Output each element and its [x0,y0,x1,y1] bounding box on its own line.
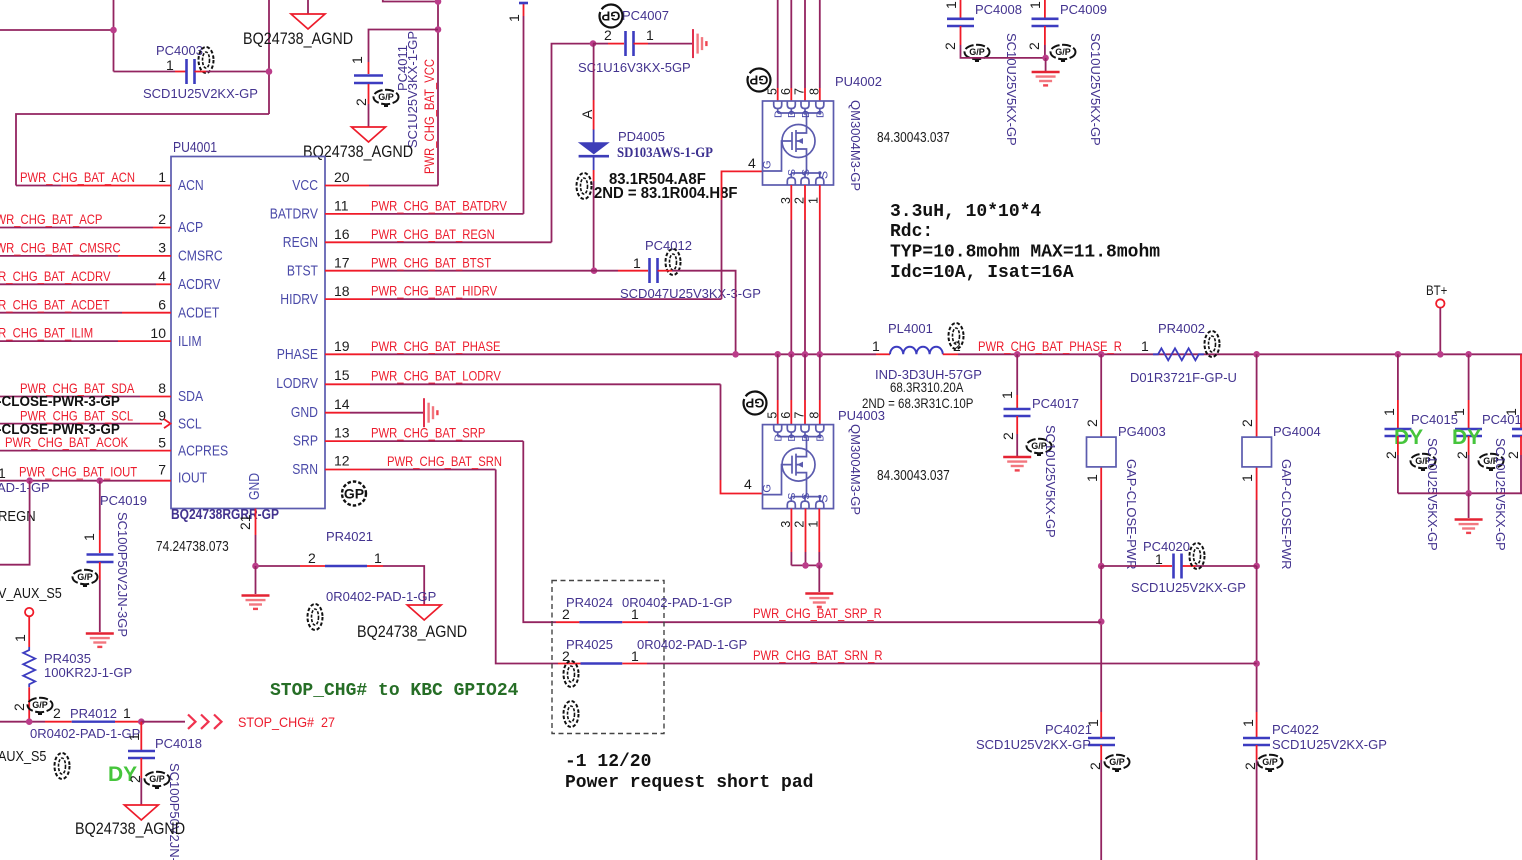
svg-text:GAP-CLOSE-PWR: GAP-CLOSE-PWR [1124,459,1139,570]
svg-text:1: 1 [81,533,97,541]
svg-text:PC4008: PC4008 [975,2,1022,17]
label PR4024 [566,595,613,610]
stamp scribble PR4021 [308,604,323,630]
wire PU4002 drain risers from top edge [778,0,820,101]
svg-text:A: A [579,109,595,119]
port chevrons STOP_CHG# [188,715,222,729]
net label ILIM [0,325,93,341]
note 84.30043.037 PU4002 [877,130,950,146]
value -CLOSE-PWR-3-GP 2 [0,422,120,438]
ground earth pin21 [242,596,270,609]
label BQ24738_AGND PC4011 [303,143,413,161]
pin 2 PC4021 (rotated) [1087,762,1103,770]
pin numbers PU4001 right [334,169,350,469]
svg-text:2: 2 [1454,451,1470,459]
svg-text:SDA: SDA [178,388,203,405]
svg-text:2: 2 [1026,42,1042,50]
svg-text:PC4007: PC4007 [622,8,669,23]
svg-text:BQ24738_AGND: BQ24738_AGND [243,30,353,48]
label DY PC4015 [1394,426,1423,449]
pin 1 PC4018 (rotated) [126,733,142,741]
wire riser x=269 [268,0,270,114]
value SC100P50V2JN-3GP PC4019 (rotated) [115,512,130,637]
svg-text:SCD1U25V2KX-GP: SCD1U25V2KX-GP [1131,580,1246,595]
svg-text:PWR_CHG_BAT_SRP_R: PWR_CHG_BAT_SRP_R [753,605,882,621]
value SCD1U25V2KX-GP PC4022 [1272,737,1387,752]
pin 1 PC4019 (rotated) [81,533,97,541]
stamp G/P PC4018 [145,772,170,788]
pin name GND bottom (rotated) [246,473,263,500]
svg-text:7: 7 [158,462,166,478]
capacitor partial right edge [1512,354,1522,493]
stamp G/P PC4019 [73,570,98,586]
node junction (819.3,565.4) [816,562,823,569]
svg-text:PWR_CHG_BAT_REGN: PWR_CHG_BAT_REGN [371,226,495,242]
pin 1 PC4016 (rotated) [1451,408,1467,416]
svg-text:1: 1 [1141,338,1149,354]
svg-text:1: 1 [1381,408,1397,416]
wire VCC riser x=438 [437,0,439,186]
wire diode branch x=593 [593,44,595,130]
svg-text:4: 4 [744,476,752,492]
svg-text:2ND = 83.1R004.H8F: 2ND = 83.1R004.H8F [594,185,738,202]
svg-text:-1 12/20: -1 12/20 [565,752,651,772]
svg-text:84.30043.037: 84.30043.037 [877,468,950,484]
wire PR4035 bottom stub [28,687,30,721]
svg-text:SCD1U25V2KX-GP: SCD1U25V2KX-GP [976,737,1091,752]
node junctions PHASE rail [732,351,823,358]
svg-text:BQ24738_AGND: BQ24738_AGND [303,143,413,161]
pin 1 PR4002 [1141,338,1149,354]
svg-text:ILIM: ILIM [178,333,202,350]
wire PHASE_R rail [958,353,1522,355]
value QM3004M3-GP (rotated) [848,100,863,191]
ground earth PU4003 source [805,594,833,607]
wire PC4018 drop [140,722,142,750]
svg-text:PWR_CHG_BAT_ACDET: PWR_CHG_BAT_ACDET [0,297,110,313]
wire PC4015 lower [1397,436,1399,493]
wire diode to BTST junction [593,170,595,271]
ground earth PC4008/9 [1032,72,1060,85]
pin 1 PC4020 [1155,551,1163,567]
wire pin19 PHASE [325,353,876,355]
svg-text:1: 1 [1240,719,1256,727]
svg-text:2: 2 [353,98,369,106]
svg-text:PR4024: PR4024 [566,595,613,610]
stamp G/P PC4015 [1411,454,1436,470]
svg-text:AD-1-GP: AD-1-GP [0,480,50,495]
pin 2 PC4009 (rotated) [1026,42,1042,50]
svg-text:PR4021: PR4021 [326,529,373,544]
svg-text:5: 5 [158,435,166,451]
value SC10U25V5KX-GP PC4008 (rotated) [1004,33,1019,146]
svg-text:SCL: SCL [178,416,202,433]
node junction (1468.6,354.3) [1465,351,1472,358]
svg-text:BATDRV: BATDRV [270,206,318,223]
wire PU4002 source drops [791,185,820,354]
wire pin4 ACDRV [0,283,171,285]
svg-text:ACDRV: ACDRV [178,276,220,293]
dashed option box [552,581,664,734]
label BQ24738_AGND PR4021 [357,623,467,641]
wire PC4009 top stub [1044,0,1046,18]
wire ground drop pin21 [255,566,257,594]
ground sideways REGN [693,29,706,58]
node junction (29.2,721.7) [26,718,33,725]
svg-text:D01R3721F-GP-U: D01R3721F-GP-U [1130,370,1237,385]
wire PC4019 drop from IOUT [99,481,101,553]
svg-text:BQ24738_AGND: BQ24738_AGND [357,623,467,641]
svg-text:STOP_CHG# 27: STOP_CHG# 27 [238,714,335,730]
pin 4 PU4002 [748,155,756,171]
label PC4011 (rotated) [395,45,410,91]
svg-text:74.24738.073: 74.24738.073 [156,539,229,555]
label PU4002 [835,74,882,89]
capacitor PC4009 [1032,19,1059,26]
stamp G/P PC4016 [1479,454,1504,470]
svg-text:IOUT: IOUT [178,470,207,487]
node junction (1256.8,566) [1253,563,1260,570]
svg-text:1: 1 [12,634,28,642]
node junction (1256.6,354.3) [1253,351,1260,358]
svg-text:1: 1 [872,338,880,354]
value D01R3721F-GP-U [1130,370,1237,385]
note 2ND = 83.1R004.H8F [594,185,738,202]
wire SRN_R rail [647,663,1257,665]
svg-text:PWR_CHG_BAT_SRN: PWR_CHG_BAT_SRN [387,453,502,469]
wire pin16 REGN [325,241,552,243]
wire LODRV riser to PU4003 gate [721,384,764,493]
capacitor PC4008 [947,19,974,26]
value SCD1U25V2KX-GP PC4021 [976,737,1091,752]
value SC10U25V5KX-GP PC4009 (rotated) [1088,33,1103,146]
svg-text:PC4019: PC4019 [100,493,147,508]
net label BATDRV [371,198,507,214]
label PC4007 [622,8,669,23]
svg-text:GAP-CLOSE-PWR: GAP-CLOSE-PWR [1279,459,1294,570]
value SC100P50V2JN-3 PC4018 (rotated) [167,763,182,860]
value SCD1U25V2KX-GP PC4020 [1131,580,1246,595]
wire pin14 GND [325,412,423,414]
svg-text:PC4003: PC4003 [156,43,203,58]
resistor PR4012 0R link [45,721,141,723]
transistor Q1 PU4002 [762,88,834,204]
wire PC4022 lower column [1256,745,1258,860]
stamp scribble PR4002 [1205,331,1220,357]
pin 2 PC4011 [353,98,369,106]
value 0R0402-PAD-1-GP PR4021 [326,589,436,604]
svg-text:PWR_CHG_BAT_IOUT: PWR_CHG_BAT_IOUT [19,464,138,480]
capacitor PC4022 [1243,738,1270,745]
svg-text:13: 13 [334,425,350,441]
stamp G/P PC4022 [1258,755,1283,771]
label AUX_S5 fragment [0,749,46,765]
svg-text:STOP_CHG# to KBC GPIO24: STOP_CHG# to KBC GPIO24 [270,681,519,701]
value 100KR2J-1-GP [44,665,132,680]
net label PWR_CHG_BAT_SRP_R [753,605,882,621]
svg-text:15: 15 [334,367,350,383]
wire BATDRV riser x=523.5 [519,3,528,214]
wire drop to ground PC4009 [1045,58,1047,71]
svg-text:1: 1 [349,56,365,64]
wire pin17 BTST [325,270,648,272]
node junction (1256.6,663.5) [1253,660,1260,667]
svg-text:9: 9 [158,408,166,424]
node junction (593,43.6) [590,40,597,47]
svg-text:QM3004M3-GP: QM3004M3-GP [848,100,863,191]
wire HIDRV riser to PU4002 gate [722,171,764,299]
svg-text:1: 1 [1027,1,1043,9]
pin numbers PU4001 left [150,169,166,478]
node junction (29.6,480.7) [26,477,33,484]
label PR4035 [44,651,91,666]
wire pin3 CMSRC [0,255,171,257]
stamp G/P PC4008 [965,45,990,61]
node junction (1045.6,57.9) [1042,55,1049,62]
svg-text:84.30043.037: 84.30043.037 [877,130,950,146]
node junction (1100.5,566) [1098,563,1105,570]
wire PC4017 to ground [1016,416,1018,456]
stamp scribble box1 [564,661,579,687]
svg-text:BQ24738RGRR-GP: BQ24738RGRR-GP [171,507,279,523]
svg-text:ACPRES: ACPRES [178,443,228,460]
svg-text:1: 1 [374,550,382,566]
pin 1 PC4009 (rotated) [1027,1,1043,9]
node junction (255.5,566) [252,563,259,570]
note Power request short pad [565,773,813,793]
capacitor PC4003 [187,59,195,84]
ground earth BT [1455,520,1483,533]
wire ACN top bus horizontal y=30 [0,29,114,31]
svg-text:SC10U25V5KX-GP: SC10U25V5KX-GP [1088,33,1103,146]
wire SRP_R rail [648,621,1101,623]
svg-text:REGN: REGN [283,234,318,251]
wire PC4015 column [1397,354,1399,428]
capacitor PC4017 [1004,409,1031,416]
svg-text:PWR_CHG_BAT_SRP: PWR_CHG_BAT_SRP [371,425,485,441]
node junction (269,71.5) [266,68,273,75]
stamp G/P PC4011 [374,90,399,106]
note 2ND = 68.3R31C.10P [862,395,973,411]
transistor Q2 PU4003 [762,412,834,528]
svg-text:1: 1 [166,57,174,73]
pin 2 PR4024 [562,606,570,622]
pin 2 PG4004 (rotated) [1239,419,1255,427]
wire PC4011 top link y=29.5 [369,30,439,75]
wire PC4018 to ground [140,758,142,805]
label PG4003 [1118,424,1166,439]
svg-text:2: 2 [604,27,612,43]
wire pin2 ACP [0,227,171,229]
wire pin6 ACDET [0,312,171,314]
svg-text:GND: GND [246,473,263,500]
wire pin15 LODRV [325,383,721,385]
pin 2 partial cap (rotated) [1505,451,1521,459]
svg-text:1: 1 [123,705,131,721]
svg-text:21: 21 [237,514,253,530]
net label CMSRC [0,240,121,256]
wire ground drop BT [1468,493,1470,518]
pin1 fragment left edge [0,465,6,481]
svg-text:VCC: VCC [292,177,318,194]
wire pin1 ACN [16,185,171,187]
value SCD047U25V3KX-3-GP [620,286,761,301]
resistor PR4021 0R link [325,566,424,605]
value SCD1U25V2KX-GP [143,86,258,101]
note inductor specs [890,202,1160,283]
svg-text:V_AUX_S5: V_AUX_S5 [0,586,62,602]
svg-text:1: 1 [1451,408,1467,416]
label PU4003 [838,408,885,423]
net label PWR_CHG_BAT_PHASE_R [978,338,1122,354]
svg-text:68.3R310.20A: 68.3R310.20A [890,379,964,395]
wire PR4035 top stub [28,616,30,647]
svg-text:SC1U16V3KX-5GP: SC1U16V3KX-5GP [578,60,691,75]
stamp GP PC4007 [600,5,623,28]
diode PD4005 [579,130,609,171]
node junction (99.8,480.7) [97,477,104,484]
svg-text:20: 20 [334,169,350,185]
svg-text:PC4022: PC4022 [1272,722,1319,737]
ground BQ24738_AGND PC4018 [124,805,158,820]
label V_AUX_S5 fragment [0,586,62,602]
wire pin10 ILIM [0,340,171,342]
node junction (594,270.7) [591,267,598,274]
svg-text:SD103AWS-1-GP: SD103AWS-1-GP [617,145,713,161]
capacitor PC4018 [128,751,155,758]
label PC4020 [1143,539,1190,554]
resistor R PR4002 [1153,348,1204,360]
svg-text:SCD1U25V2KX-GP: SCD1U25V2KX-GP [143,86,258,101]
svg-text:10: 10 [150,325,166,341]
note 84.30043.037 PU4003 [877,468,950,484]
pin 2 PR4012 [53,705,61,721]
wire pin9 SCL with entry chevron [0,419,171,428]
label DY PC4016 [1452,426,1481,449]
svg-text:2: 2 [53,705,61,721]
value SC10U25V5KX-GP PC4016 (rotated) [1493,438,1508,551]
label PU4001 [173,139,217,156]
value SC1U25V3KX-1-GP (rotated) [405,31,420,148]
ground BQ24738_AGND PC4011 [352,127,386,142]
value IND-3D3UH-57GP [875,367,982,382]
svg-text:PWR_CHG_BAT_ACDRV: PWR_CHG_BAT_ACDRV [0,268,111,284]
svg-text:4: 4 [748,155,756,171]
svg-text:2: 2 [1505,451,1521,459]
svg-text:PC4009: PC4009 [1060,2,1107,17]
wire PC4012 to PHASE [658,271,736,355]
svg-text:16: 16 [334,226,350,242]
node junction (438,29.5) [435,26,442,33]
label PR4021 [326,529,373,544]
svg-text:SC10U25V5KX-GP: SC10U25V5KX-GP [1004,33,1019,146]
wire PC4019 to ground [99,562,101,632]
pin names PU4001 right [270,177,318,478]
label PC4017 [1032,396,1079,411]
label PC4019 [100,493,147,508]
svg-text:SC10U25V5KX-GP: SC10U25V5KX-GP [1425,438,1440,551]
pin 2 PC4007 [604,27,612,43]
svg-text:ACP: ACP [178,219,203,236]
value GAP-CLOSE-PWR PG4003 (rotated) [1124,459,1139,570]
label BQ24738_AGND PC4018 [75,820,185,838]
pad PG4003 [1087,437,1117,467]
wire IOUT left branch to edge [0,481,30,565]
svg-text:1: 1 [506,14,522,22]
pin 1 BATDRV top (rotated) [506,14,522,22]
label PC4015 [1411,412,1458,427]
svg-text:SC100P50V2JN-3GP: SC100P50V2JN-3GP [115,512,130,637]
wire REGN to PC4007 [593,43,624,45]
wire ACN y=71.5 right of PC4003 [195,71,270,73]
value SD103AWS-1-GP [617,145,713,161]
pin 1 PC4003 [166,57,174,73]
wire PG4004 column [1256,354,1258,566]
svg-text:PWR_CHG_BAT_CMSRC: PWR_CHG_BAT_CMSRC [0,240,121,256]
svg-text:PR4025: PR4025 [566,637,613,652]
wire drop to ground [818,565,820,592]
label PC4016 [1482,412,1522,427]
svg-text:1: 1 [943,1,959,9]
svg-text:PHASE: PHASE [277,346,318,363]
capacitor PC4021 [1088,738,1115,745]
wire PC4020 link y=566 [1101,565,1256,567]
pin 1 PR4035 (rotated) [12,634,28,642]
svg-text:0R0402-PAD-1-GP: 0R0402-PAD-1-GP [637,637,747,652]
label PC4021 [1045,722,1092,737]
pin 1 PC4012 [633,255,641,271]
op-amp/IC U1 PU4001 body [171,157,325,509]
pin 1 PC4015 (rotated) [1381,408,1397,416]
net label SRN [387,453,502,469]
node junction (1101.2,354.3) [1098,351,1105,358]
svg-text:Power request short pad: Power request short pad [565,773,813,793]
svg-text:PWR_CHG_BAT_ACN: PWR_CHG_BAT_ACN [20,169,135,185]
svg-text:PC4018: PC4018 [155,736,202,751]
wire pin21 GND bottom stub [255,509,257,567]
svg-text:PC4017: PC4017 [1032,396,1079,411]
svg-text:11: 11 [334,198,349,214]
wire top stub to VCC riser [383,0,438,2]
svg-text:PWR_CHG_BAT_HIDRV: PWR_CHG_BAT_HIDRV [371,283,498,299]
net label SDA [20,380,135,396]
value -CLOSE-PWR-3-GP [0,394,120,410]
ground earth PC4017 [1003,457,1031,470]
label fragment REGN [0,508,36,525]
value 74.24738.073 [156,539,229,555]
pad PG4004 [1242,437,1272,467]
wire bottom bus y=493.3 [1398,492,1522,494]
wire pin5 ACPRES [0,450,171,452]
net label PWR_CHG_BAT_SRN_R [753,647,883,663]
net label ACP [0,211,102,227]
svg-text:2: 2 [1239,419,1255,427]
svg-text:Idc=10A, Isat=16A: Idc=10A, Isat=16A [890,263,1074,283]
wire PU4003 source drops [791,509,819,566]
value GAP-CLOSE-PWR PG4004 (rotated) [1279,459,1294,570]
pin 2 PL4001 [953,338,961,354]
net label BTST [371,255,491,271]
label PL4001 [888,321,933,336]
svg-text:PL4001: PL4001 [888,321,933,336]
label PC4022 [1272,722,1319,737]
wire pin8 SDA [0,396,171,398]
label PC4008 [975,2,1022,17]
value SC10U25V5KX-GP PC4017 (rotated) [1043,425,1058,538]
wire STOP_CHG rail [0,721,45,723]
svg-text:1: 1 [631,648,639,664]
svg-text:6: 6 [158,297,166,313]
